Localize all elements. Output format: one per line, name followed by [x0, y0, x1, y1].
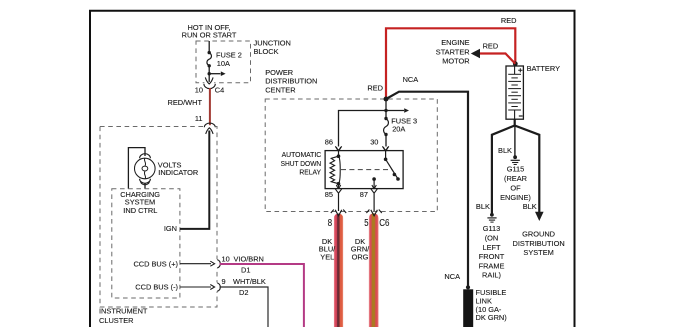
svg-text:SYSTEM: SYSTEM	[523, 248, 553, 257]
connector 11 female arc	[204, 123, 215, 127]
node switch pivot 30	[384, 158, 388, 162]
svg-text:CCD BUS (+): CCD BUS (+)	[133, 259, 178, 268]
wire lamp bottom to box	[144, 183, 146, 189]
svg-text:VIO/BRN: VIO/BRN	[234, 255, 264, 264]
node fuse2 top	[208, 51, 211, 54]
svg-text:CENTER: CENTER	[265, 86, 295, 95]
connector D1 male arrow	[210, 261, 214, 266]
pin 85 male tip	[336, 185, 340, 188]
volts indicator lamp	[135, 158, 156, 179]
node red/NCA junction	[384, 97, 389, 102]
svg-text:87: 87	[360, 190, 368, 199]
svg-text:DISTRIBUTION: DISTRIBUTION	[513, 239, 565, 248]
wire WHT/BLK	[220, 287, 269, 327]
svg-text:D1: D1	[241, 266, 250, 275]
svg-text:AUTOMATIC: AUTOMATIC	[282, 150, 322, 159]
wire split left to G113	[492, 126, 515, 214]
svg-text:RED: RED	[367, 83, 383, 92]
relay coil zigzag	[330, 156, 339, 184]
arrow ground distribution	[535, 212, 544, 221]
node red/battery junction	[513, 61, 518, 66]
fuse F2	[207, 53, 212, 66]
svg-text:(REAR: (REAR	[504, 174, 527, 183]
node coil top	[337, 154, 341, 158]
wire fuse2 to junction	[208, 66, 210, 74]
pin 30 male tip	[383, 147, 387, 150]
svg-text:STARTER: STARTER	[436, 47, 470, 56]
wire fuse3 to relay 30	[385, 135, 387, 147]
ground G113	[490, 213, 494, 217]
svg-text:DK GRN): DK GRN)	[476, 313, 507, 322]
svg-text:FRAME: FRAME	[479, 261, 505, 270]
svg-text:LEFT: LEFT	[482, 243, 501, 252]
pin 87 socket V	[371, 189, 377, 193]
svg-text:INDICATOR: INDICATOR	[158, 168, 198, 177]
border frame	[90, 11, 575, 327]
svg-text:OF: OF	[510, 183, 521, 192]
arrow to engine starter motor	[471, 49, 480, 58]
lamp top socket arc	[140, 154, 151, 159]
svg-text:YEL: YEL	[320, 253, 334, 262]
wire coil to pin 85	[338, 184, 340, 189]
wire center to G115	[514, 126, 516, 156]
arrow to other circuits right	[386, 110, 404, 112]
svg-text:INSTRUMENT: INSTRUMENT	[99, 307, 148, 316]
svg-text:ENGINE): ENGINE)	[500, 193, 531, 202]
svg-text:CLUSTER: CLUSTER	[99, 316, 134, 325]
wire down to connector C4	[208, 74, 210, 84]
node pin 87	[372, 177, 376, 181]
svg-text:C6: C6	[379, 218, 390, 229]
svg-text:5: 5	[364, 218, 369, 229]
junction block box	[196, 41, 251, 83]
pin 86 male tip	[336, 147, 340, 150]
dash gap at D2	[216, 283, 218, 292]
svg-text:D2: D2	[239, 288, 248, 297]
node switch contact mid	[393, 173, 397, 177]
connector 8 arrow	[335, 210, 342, 216]
dashed actuation link	[341, 169, 392, 171]
wire NCA	[386, 92, 468, 288]
wire branch to relay 86	[339, 111, 387, 147]
connector C4 female arc	[204, 84, 215, 89]
battery +	[518, 68, 522, 72]
wire IGN to connector 11	[180, 131, 209, 229]
svg-text:G113: G113	[483, 224, 501, 233]
node coil bottom	[337, 182, 341, 186]
svg-text:10A: 10A	[217, 59, 230, 68]
thick wire DK GRN/ORG	[369, 213, 379, 327]
dash gap at connector 11	[204, 125, 216, 128]
wire lamp loop	[128, 148, 145, 189]
battery B1	[506, 66, 523, 119]
svg-text:BLK: BLK	[523, 202, 537, 211]
wire RED main	[386, 28, 515, 99]
dash gap at connector C4	[204, 82, 214, 84]
svg-text:IGN: IGN	[164, 224, 177, 233]
svg-text:9: 9	[222, 277, 226, 286]
wire pin30 stub	[385, 151, 387, 160]
pin 30 socket V	[382, 146, 388, 151]
connector 11 male arrowhead	[206, 128, 213, 134]
battery top stem	[514, 66, 516, 74]
lamp bottom socket arcs	[140, 179, 151, 184]
arrow to other circuits (right)	[209, 73, 220, 75]
charging system ind ctrl box	[112, 189, 180, 298]
wire ccd+ lead	[180, 263, 211, 265]
svg-text:10: 10	[222, 255, 230, 264]
power distribution center box	[265, 99, 437, 212]
wire into PDC	[385, 99, 387, 119]
pin 85 socket V	[335, 189, 341, 193]
relay box	[325, 151, 403, 189]
svg-text:RED: RED	[501, 16, 517, 25]
svg-text:FRONT: FRONT	[479, 252, 505, 261]
svg-text:BATTERY: BATTERY	[527, 64, 560, 73]
svg-text:30: 30	[370, 138, 378, 147]
wire pin86 to coil	[338, 150, 340, 156]
node switch arm end	[396, 177, 400, 181]
svg-text:8: 8	[328, 218, 333, 229]
fuse F3	[384, 119, 389, 135]
svg-text:WHT/BLK: WHT/BLK	[233, 277, 266, 286]
dash gap at D1	[216, 259, 218, 268]
node junction in JB	[208, 72, 211, 75]
svg-text:CCD BUS (-): CCD BUS (-)	[135, 283, 178, 292]
svg-text:NCA: NCA	[403, 75, 419, 84]
connector 5 arrow	[371, 210, 378, 216]
pin 86 socket V	[335, 146, 341, 151]
node fuse3 top	[384, 117, 387, 120]
fusible link F4	[463, 289, 473, 327]
connector D2 female arc	[217, 283, 220, 291]
svg-text:11: 11	[195, 114, 203, 123]
wire ccd- lead	[180, 286, 211, 288]
wire RED/WHT	[209, 88, 211, 126]
svg-text:ENGINE: ENGINE	[441, 38, 469, 47]
svg-text:86: 86	[325, 138, 333, 147]
wire 85 to connector 8	[338, 194, 340, 212]
svg-text:RED: RED	[483, 42, 499, 51]
battery plates	[508, 74, 521, 110]
svg-text:IND CTRL: IND CTRL	[123, 206, 157, 215]
svg-text:RED/WHT: RED/WHT	[168, 98, 203, 107]
svg-text:20A: 20A	[392, 125, 405, 134]
svg-text:SHUT DOWN: SHUT DOWN	[281, 159, 322, 168]
svg-text:10: 10	[195, 86, 203, 95]
pin 87 male tip	[372, 185, 376, 188]
instrument cluster box	[100, 127, 217, 308]
thick wire DK BLU/YEL	[334, 213, 343, 327]
wire battery negative trunk	[514, 119, 516, 126]
node fuse2 bottom	[208, 64, 211, 67]
svg-text:G115: G115	[507, 165, 525, 174]
connector C4 male pin arrowhead	[205, 77, 213, 84]
svg-text:NCA: NCA	[444, 272, 460, 281]
svg-text:(ON: (ON	[485, 234, 499, 243]
svg-text:RUN OR START: RUN OR START	[182, 31, 237, 40]
svg-text:POWER: POWER	[265, 68, 293, 77]
relay coil return line	[339, 156, 341, 184]
svg-text:MOTOR: MOTOR	[442, 57, 469, 66]
connector D1 female arc	[217, 260, 220, 268]
wire split right to ground dist	[515, 126, 540, 213]
battery -	[519, 115, 523, 117]
wire from box top to fuse 2	[208, 41, 210, 53]
svg-text:C4: C4	[215, 86, 224, 95]
svg-text:RAIL): RAIL)	[482, 271, 501, 280]
svg-text:DISTRIBUTION: DISTRIBUTION	[265, 77, 317, 86]
node fuse3 bottom	[384, 133, 387, 136]
wire VIO/BRN (magenta)	[220, 264, 304, 327]
wire 87 to connector 5	[373, 194, 375, 212]
svg-text:BLK: BLK	[498, 146, 512, 155]
svg-text:ORG: ORG	[352, 253, 369, 262]
node branch in PDC	[384, 109, 387, 112]
connector D2 male arrow	[210, 285, 214, 290]
svg-text:85: 85	[325, 190, 333, 199]
node fusible link top	[466, 285, 470, 289]
ground G115	[513, 155, 517, 159]
wire pin 87 down	[373, 179, 375, 189]
svg-text:RELAY: RELAY	[299, 168, 321, 177]
svg-text:BLOCK: BLOCK	[254, 47, 279, 56]
battery bottom stem	[514, 110, 516, 119]
relay switch arm	[386, 159, 398, 179]
wire to engine starter motor	[480, 54, 516, 64]
svg-text:BLK: BLK	[476, 202, 490, 211]
svg-text:GROUND: GROUND	[522, 230, 555, 239]
